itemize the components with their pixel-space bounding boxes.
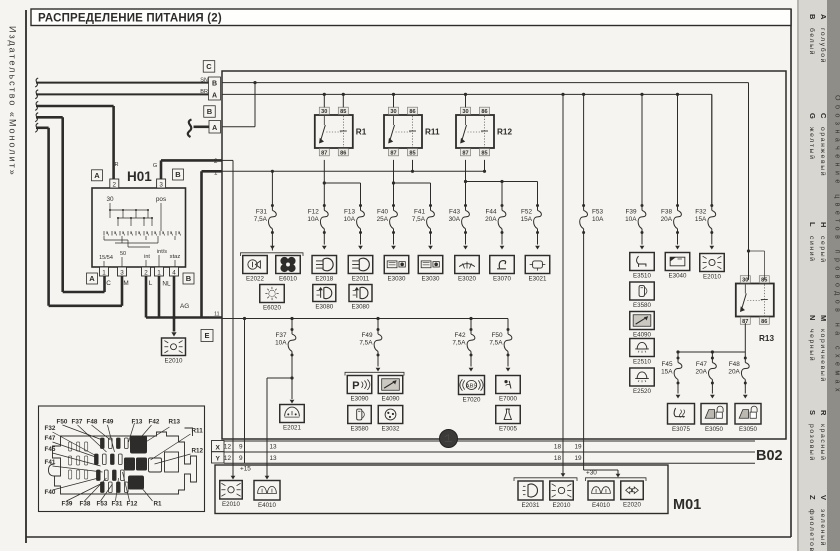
svg-text:G: G: [153, 163, 157, 169]
svg-text:E3075: E3075: [672, 426, 690, 433]
svg-text:E3040: E3040: [669, 273, 687, 280]
svg-text:9: 9: [239, 455, 243, 462]
svg-text:F43: F43: [449, 209, 460, 216]
svg-text:коричневый: коричневый: [819, 329, 827, 383]
svg-text:13: 13: [270, 444, 278, 451]
svg-text:F12: F12: [308, 209, 319, 216]
svg-text:30: 30: [321, 109, 327, 115]
svg-text:F53: F53: [592, 209, 603, 216]
svg-text:L: L: [808, 222, 817, 227]
svg-text:85: 85: [340, 109, 346, 115]
svg-text:фиолетовый: фиолетовый: [808, 509, 816, 551]
svg-text:ABS: ABS: [466, 383, 478, 389]
svg-text:85: 85: [409, 151, 415, 157]
svg-text:желтый: желтый: [808, 127, 816, 160]
svg-text:оранжевый: оранжевый: [819, 127, 827, 177]
svg-text:R13: R13: [759, 334, 774, 343]
svg-text:15A: 15A: [695, 216, 707, 223]
svg-text:7,5A: 7,5A: [489, 340, 503, 347]
svg-text:F50: F50: [491, 332, 502, 339]
svg-text:F13: F13: [132, 419, 143, 426]
svg-text:E3050: E3050: [705, 426, 723, 433]
svg-text:E3070: E3070: [493, 276, 511, 283]
svg-text:F37: F37: [72, 419, 83, 426]
svg-text:E2022: E2022: [246, 276, 264, 283]
svg-text:7,5A: 7,5A: [359, 340, 373, 347]
svg-text:int: int: [144, 254, 150, 260]
svg-text:18: 18: [554, 444, 562, 451]
svg-text:C: C: [206, 62, 212, 71]
svg-text:B: B: [207, 107, 213, 116]
svg-text:X: X: [215, 444, 220, 451]
svg-text:87: 87: [321, 151, 327, 157]
svg-text:E6010: E6010: [279, 276, 297, 283]
svg-text:19: 19: [574, 444, 582, 451]
svg-text:E3050: E3050: [739, 426, 757, 433]
svg-text:7,5A: 7,5A: [254, 216, 268, 223]
svg-text:R: R: [819, 410, 828, 416]
svg-text:10A: 10A: [307, 216, 319, 223]
svg-text:30: 30: [106, 196, 114, 203]
svg-text:F32: F32: [695, 209, 706, 216]
svg-text:E2010: E2010: [222, 501, 240, 508]
svg-text:13: 13: [270, 455, 278, 462]
svg-text:M: M: [123, 280, 128, 287]
svg-text:V: V: [819, 495, 828, 500]
svg-text:7,5A: 7,5A: [452, 340, 466, 347]
svg-text:F31: F31: [112, 501, 123, 508]
svg-text:E2011: E2011: [352, 276, 370, 283]
svg-text:E3032: E3032: [382, 426, 400, 433]
svg-text:E2021: E2021: [283, 425, 301, 432]
svg-text:E2510: E2510: [633, 359, 651, 366]
svg-text:15/54: 15/54: [99, 255, 113, 261]
svg-text:E2520: E2520: [633, 388, 651, 395]
svg-text:B02: B02: [756, 448, 783, 464]
svg-text:+15: +15: [240, 466, 251, 473]
svg-text:F31: F31: [256, 209, 267, 216]
svg-text:20A: 20A: [485, 216, 497, 223]
svg-text:30: 30: [462, 109, 468, 115]
svg-text:25A: 25A: [377, 216, 389, 223]
svg-text:20A: 20A: [728, 369, 740, 376]
svg-text:20A: 20A: [661, 216, 673, 223]
svg-text:E3080: E3080: [315, 304, 333, 311]
svg-text:F48: F48: [87, 419, 98, 426]
svg-text:staz: staz: [170, 254, 181, 260]
svg-text:15A: 15A: [521, 216, 533, 223]
svg-text:красный: красный: [819, 424, 827, 462]
svg-text:30: 30: [390, 109, 396, 115]
svg-text:R13: R13: [169, 419, 181, 426]
svg-text:AG: AG: [180, 303, 189, 310]
svg-text:R11: R11: [425, 128, 440, 137]
svg-text:19: 19: [574, 455, 582, 462]
svg-text:4: 4: [172, 270, 176, 277]
svg-text:F42: F42: [454, 332, 465, 339]
svg-text:86: 86: [409, 109, 415, 115]
svg-text:M01: M01: [673, 497, 701, 513]
svg-text:F38: F38: [661, 209, 672, 216]
svg-text:12: 12: [224, 444, 232, 451]
svg-text:E3020: E3020: [458, 276, 476, 283]
svg-text:11: 11: [214, 312, 219, 318]
svg-text:9: 9: [239, 444, 243, 451]
svg-text:20A: 20A: [696, 369, 708, 376]
svg-text:F48: F48: [729, 361, 740, 368]
svg-text:int/s: int/s: [157, 249, 167, 255]
svg-text:F42: F42: [149, 419, 160, 426]
svg-text:R1: R1: [154, 501, 163, 508]
svg-text:F12: F12: [127, 501, 138, 508]
svg-text:C: C: [106, 280, 111, 287]
svg-text:M: M: [819, 315, 828, 321]
svg-text:P: P: [352, 380, 360, 392]
svg-text:E: E: [204, 331, 209, 340]
svg-text:F49: F49: [103, 419, 114, 426]
svg-text:Y: Y: [215, 456, 220, 463]
svg-text:1: 1: [157, 270, 161, 277]
svg-text:B: B: [808, 14, 817, 20]
svg-text:86: 86: [481, 109, 487, 115]
svg-text:A: A: [94, 171, 100, 180]
svg-text:1: 1: [102, 270, 106, 277]
svg-text:розовый: розовый: [808, 424, 816, 462]
svg-text:B: B: [175, 170, 181, 179]
svg-text:R12: R12: [192, 448, 204, 455]
svg-text:L: L: [149, 280, 153, 287]
svg-text:F50: F50: [57, 419, 68, 426]
svg-text:H01: H01: [127, 169, 152, 184]
svg-text:E4010: E4010: [258, 502, 276, 509]
svg-text:F39: F39: [62, 501, 73, 508]
svg-text:H: H: [819, 222, 828, 227]
svg-text:E3021: E3021: [529, 276, 547, 283]
svg-text:F38: F38: [80, 501, 91, 508]
svg-text:F47: F47: [45, 435, 56, 442]
svg-text:F37: F37: [275, 332, 286, 339]
svg-text:30A: 30A: [449, 216, 461, 223]
svg-text:12: 12: [224, 455, 232, 462]
svg-text:30: 30: [742, 278, 748, 284]
svg-text:F41: F41: [45, 459, 56, 466]
svg-text:G: G: [808, 113, 817, 119]
svg-text:F45: F45: [661, 361, 672, 368]
svg-text:E2010: E2010: [553, 502, 571, 509]
svg-text:E7020: E7020: [463, 397, 481, 404]
svg-text:E6020: E6020: [263, 305, 281, 312]
svg-text:B: B: [212, 80, 217, 87]
svg-text:A: A: [212, 92, 217, 99]
svg-text:E4090: E4090: [382, 396, 400, 403]
svg-text:50: 50: [120, 251, 126, 257]
svg-text:3: 3: [120, 270, 124, 277]
svg-text:85: 85: [481, 151, 487, 157]
svg-text:F49: F49: [361, 332, 372, 339]
svg-text:РАСПРЕДЕЛЕНИЕ ПИТАНИЯ (2): РАСПРЕДЕЛЕНИЕ ПИТАНИЯ (2): [38, 13, 222, 25]
svg-text:F52: F52: [521, 209, 532, 216]
svg-text:зеленый: зеленый: [819, 509, 827, 547]
svg-text:E4010: E4010: [592, 502, 610, 509]
svg-text:F41: F41: [414, 209, 425, 216]
svg-text:E3090: E3090: [351, 396, 369, 403]
svg-text:Z: Z: [808, 495, 817, 500]
svg-text:10A: 10A: [344, 216, 356, 223]
svg-text:F39: F39: [625, 209, 636, 216]
svg-text:синий: синий: [808, 236, 816, 263]
svg-text:серый: серый: [819, 236, 827, 264]
svg-text:R12: R12: [497, 128, 512, 137]
svg-text:3: 3: [159, 182, 163, 189]
svg-text:R: R: [114, 162, 118, 168]
svg-text:B: B: [186, 274, 192, 283]
svg-text:7,5A: 7,5A: [412, 216, 426, 223]
svg-text:86: 86: [340, 151, 346, 157]
svg-text:A: A: [212, 125, 217, 132]
svg-text:+30: +30: [586, 470, 597, 477]
svg-text:F40: F40: [377, 209, 388, 216]
svg-text:E2018: E2018: [315, 276, 333, 283]
svg-text:E7000: E7000: [499, 396, 517, 403]
svg-text:10A: 10A: [592, 216, 604, 223]
svg-text:R11: R11: [192, 428, 204, 435]
svg-text:87: 87: [390, 151, 396, 157]
svg-text:10A: 10A: [275, 340, 287, 347]
svg-text:F47: F47: [696, 361, 707, 368]
svg-text:F13: F13: [344, 209, 355, 216]
svg-text:черный: черный: [808, 329, 816, 362]
svg-text:E2031: E2031: [522, 502, 540, 509]
svg-text:pos: pos: [156, 196, 166, 203]
svg-text:86: 86: [761, 319, 767, 325]
svg-text:голубой: голубой: [819, 28, 827, 64]
svg-text:2: 2: [113, 182, 117, 189]
svg-text:E2010: E2010: [703, 274, 721, 281]
svg-text:Издательство «Монолит»: Издательство «Монолит»: [8, 26, 18, 177]
svg-text:E7005: E7005: [499, 426, 517, 433]
svg-text:A: A: [819, 14, 828, 20]
svg-text:F44: F44: [485, 209, 496, 216]
svg-text:E3580: E3580: [351, 426, 369, 433]
svg-text:E3580: E3580: [633, 302, 651, 309]
svg-text:E3030: E3030: [422, 276, 440, 283]
svg-text:S: S: [808, 410, 817, 415]
svg-text:Обозначение цветов проводов на: Обозначение цветов проводов на схемах: [834, 95, 840, 396]
svg-text:18: 18: [554, 455, 562, 462]
svg-text:NL: NL: [162, 281, 171, 288]
svg-text:F53: F53: [97, 501, 108, 508]
svg-text:E2020: E2020: [623, 502, 641, 509]
svg-text:N: N: [808, 315, 817, 320]
svg-text:F32: F32: [45, 425, 56, 432]
svg-text:F45: F45: [45, 446, 56, 453]
svg-text:C: C: [819, 113, 828, 119]
svg-text:2: 2: [144, 270, 148, 277]
svg-text:A: A: [89, 274, 95, 283]
svg-text:F40: F40: [45, 489, 56, 496]
svg-text:10A: 10A: [625, 216, 637, 223]
svg-text:E3080: E3080: [352, 304, 370, 311]
svg-text:15A: 15A: [661, 369, 673, 376]
svg-text:E3510: E3510: [633, 273, 651, 280]
svg-text:белый: белый: [808, 28, 816, 56]
svg-text:87: 87: [462, 151, 468, 157]
svg-text:E3030: E3030: [388, 276, 406, 283]
svg-text:E2010: E2010: [165, 358, 183, 365]
svg-text:E4090: E4090: [633, 332, 651, 339]
svg-text:R1: R1: [356, 128, 367, 137]
